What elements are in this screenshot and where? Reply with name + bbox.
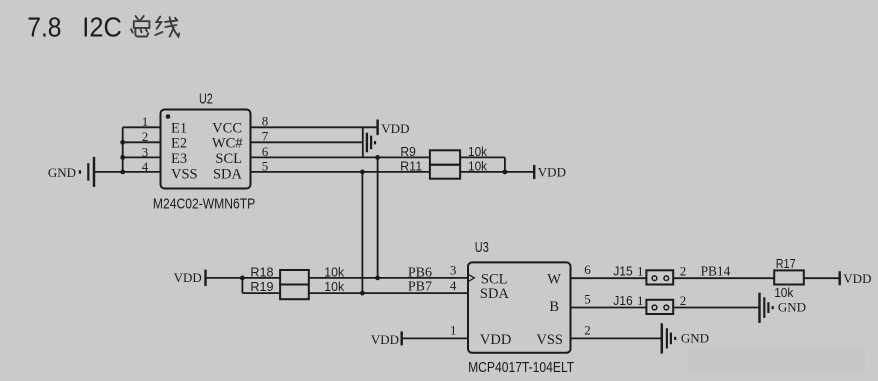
wire R17 to VDD <box>804 277 840 279</box>
resistor R9 body <box>430 150 460 164</box>
ground symbol at J16 <box>760 293 774 323</box>
svg-text:R17: R17 <box>776 256 796 271</box>
junction dot pin4 <box>120 170 125 175</box>
svg-text:4: 4 <box>450 278 457 293</box>
junction dot PB6 <box>375 276 380 281</box>
svg-text:R11: R11 <box>400 158 422 173</box>
svg-text:2: 2 <box>680 293 687 308</box>
wire vertical pin8-pin7-pin6 tie <box>362 127 364 157</box>
svg-text:J15: J15 <box>613 264 633 279</box>
svg-text:10k: 10k <box>324 279 344 294</box>
svg-text:1: 1 <box>450 323 457 338</box>
wire U2 pin1 <box>123 126 161 128</box>
svg-text:GND: GND <box>48 165 76 180</box>
svg-text:R18: R18 <box>250 265 273 280</box>
resistor R11 body <box>430 165 460 179</box>
resistor R18 body <box>280 270 309 285</box>
wire R19 output to U3 SDA <box>309 292 468 294</box>
svg-text:7.8: 7.8 <box>27 12 61 43</box>
svg-text:GND: GND <box>778 300 806 315</box>
power bar VDD at U3 pin1 <box>401 331 403 345</box>
power bar VDD at R17 <box>839 271 841 285</box>
wire U2 pin3 <box>123 156 161 158</box>
wire U2 pin6 SCL to R9 <box>251 156 430 158</box>
IC U2 body <box>161 110 251 189</box>
wire U2 pin2 <box>123 141 161 143</box>
wire VDD to R18/R19 split <box>206 277 243 279</box>
svg-text:M24C02-WMN6TP: M24C02-WMN6TP <box>153 196 255 213</box>
svg-text:VDD: VDD <box>843 271 871 286</box>
wire down to R19 input <box>241 278 243 293</box>
resistor R17 body <box>774 270 804 284</box>
wire U2 pin7 WC# <box>251 141 363 143</box>
junction dot pin3 <box>120 155 125 160</box>
svg-text:1: 1 <box>637 293 644 308</box>
J15 pad circle 2 <box>664 276 669 281</box>
svg-text:VDD: VDD <box>480 332 511 348</box>
power bar VDD at pin8 <box>376 120 378 136</box>
svg-text:W: W <box>547 271 561 287</box>
svg-text:VDD: VDD <box>538 165 566 180</box>
svg-text:R9: R9 <box>400 144 416 159</box>
wire SDA bus down to PB7 <box>361 172 363 293</box>
power bar VDD at R9/R11 <box>533 165 535 179</box>
ground symbol at WC# <box>367 133 376 153</box>
svg-text:SCL: SCL <box>215 151 242 167</box>
svg-text:WC#: WC# <box>212 136 243 152</box>
svg-text:VCC: VCC <box>212 120 242 136</box>
svg-text:E3: E3 <box>171 151 187 167</box>
svg-text:J16: J16 <box>613 293 633 308</box>
junction dot SCL bus <box>375 155 380 160</box>
wire R9 output corner down <box>504 157 506 172</box>
svg-text:GND: GND <box>681 330 709 345</box>
wire VDD to U3 pin1 <box>402 337 468 339</box>
junction dot SDA bus <box>360 170 365 175</box>
svg-text:VSS: VSS <box>171 166 198 182</box>
wire R9 output <box>460 156 505 158</box>
svg-text:6: 6 <box>584 262 591 277</box>
svg-text:R19: R19 <box>250 279 273 294</box>
svg-text:E2: E2 <box>171 136 187 152</box>
wire to R19 input <box>242 292 280 294</box>
svg-text:2: 2 <box>584 322 591 337</box>
J16 pad circle 2 <box>664 305 669 310</box>
wire to R18 input <box>242 277 280 279</box>
svg-text:E1: E1 <box>171 120 187 136</box>
junction dot PB7 <box>360 291 365 296</box>
svg-text:VDD: VDD <box>174 270 202 285</box>
wire J15 to R17 <box>673 277 774 279</box>
svg-text:10k: 10k <box>774 285 794 300</box>
svg-text:MCP4017T-104ELT: MCP4017T-104ELT <box>468 359 574 376</box>
wire U3 B to J16 <box>571 307 647 309</box>
junction dot pin2 <box>120 140 125 145</box>
svg-text:2: 2 <box>680 264 687 279</box>
wire R18 output to U3 SCL <box>309 277 468 279</box>
J16 pad circle 1 <box>652 305 657 310</box>
svg-text:PB14: PB14 <box>701 265 731 280</box>
junction dot R9/R11 outputs <box>503 170 508 175</box>
svg-text:U3: U3 <box>475 240 489 256</box>
svg-text:VDD: VDD <box>381 121 409 136</box>
wire J16 to GND <box>673 307 759 309</box>
svg-text:3: 3 <box>450 262 457 277</box>
svg-text:VDD: VDD <box>371 332 399 347</box>
wire SCL bus down to PB6 <box>377 157 379 278</box>
wire U2 pin8 VCC to VDD <box>251 126 378 128</box>
IC U3 body <box>468 262 571 352</box>
svg-text:PB7: PB7 <box>408 280 432 295</box>
svg-text:PB6: PB6 <box>408 265 432 280</box>
wire U3 W to J15 <box>571 277 647 279</box>
power bar VDD at R18 input <box>204 270 206 286</box>
wire R11 output to VDD <box>460 171 534 173</box>
title 7.8 I2C <box>27 12 122 43</box>
wire U3 VSS to GND <box>571 337 662 339</box>
wire U2 pin5 SDA to R11 <box>251 171 430 173</box>
wire vertical E1-E2-E3-VSS tie <box>122 127 124 172</box>
jumper J16 body <box>646 300 673 314</box>
ground symbol at U2 VSS <box>79 157 94 187</box>
svg-text:VSS: VSS <box>536 332 563 348</box>
svg-text:5: 5 <box>584 291 591 306</box>
resistor R19 body <box>280 285 309 300</box>
U2 pin-1 dot <box>166 114 171 119</box>
U3 clock mark on SCL <box>468 274 474 281</box>
wire U2 pin4 to GND <box>94 171 161 173</box>
faint watermark patch <box>688 349 865 373</box>
title hanzi 线 <box>155 17 179 37</box>
ground symbol at U3 VSS <box>662 323 677 353</box>
svg-text:I2C: I2C <box>82 12 122 43</box>
J15 pad circle 1 <box>652 276 657 281</box>
svg-text:1: 1 <box>637 264 644 279</box>
svg-text:SDA: SDA <box>213 166 243 182</box>
jumper J15 body <box>646 270 673 284</box>
title hanzi 总 <box>131 16 149 37</box>
junction dot R18/R19 input <box>240 276 245 281</box>
svg-text:B: B <box>549 299 559 315</box>
svg-text:SDA: SDA <box>480 286 510 302</box>
svg-text:U2: U2 <box>199 91 213 107</box>
